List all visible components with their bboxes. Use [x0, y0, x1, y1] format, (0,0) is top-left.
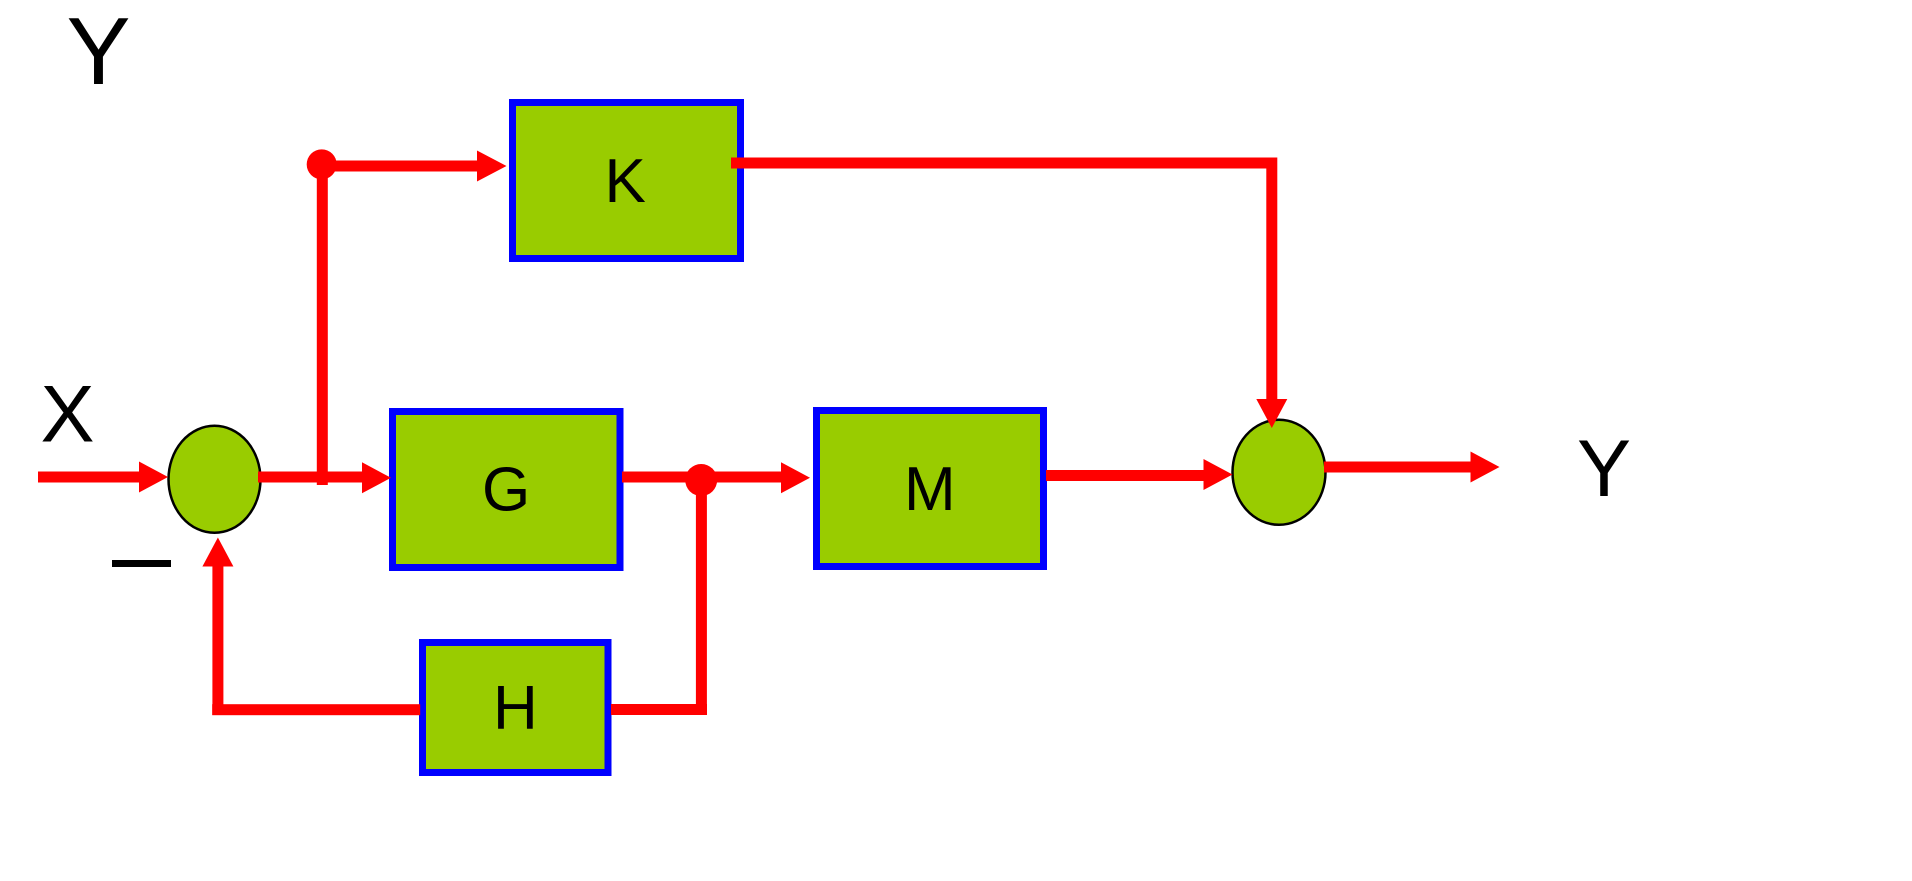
svg-text:Y: Y — [1577, 424, 1631, 514]
svg-text:H: H — [493, 674, 538, 743]
svg-text:Y: Y — [67, 0, 131, 105]
svg-text:M: M — [904, 455, 956, 524]
svg-text:G: G — [482, 456, 530, 525]
svg-text:K: K — [605, 147, 646, 216]
svg-text:X: X — [41, 370, 95, 460]
